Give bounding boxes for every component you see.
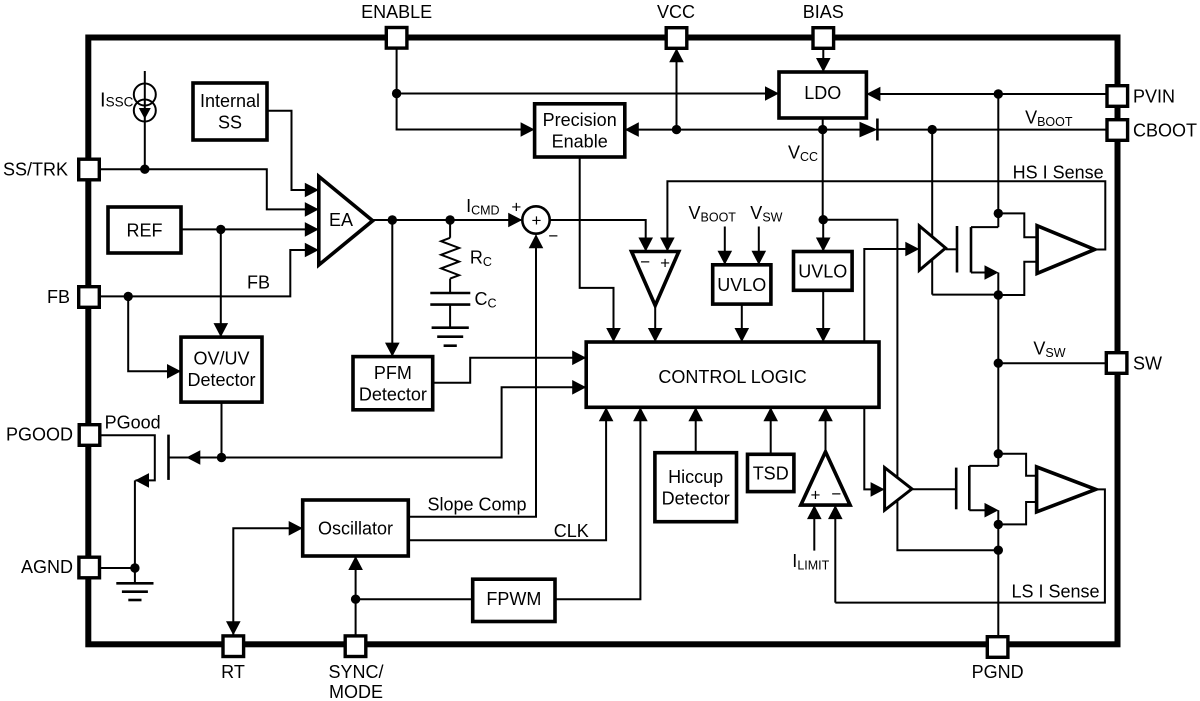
- svg-text:EA: EA: [329, 210, 353, 230]
- svg-text:Detector: Detector: [662, 488, 730, 508]
- svg-text:AGND: AGND: [21, 557, 73, 577]
- svg-text:−: −: [548, 227, 558, 246]
- svg-text:SS: SS: [218, 113, 242, 133]
- svg-text:+: +: [532, 211, 542, 230]
- svg-text:CBOOT: CBOOT: [1133, 121, 1197, 141]
- svg-text:Detector: Detector: [187, 370, 255, 390]
- svg-text:FB: FB: [247, 273, 270, 293]
- svg-text:SW: SW: [1133, 354, 1162, 374]
- svg-text:Internal: Internal: [200, 91, 260, 111]
- svg-text:−: −: [831, 484, 841, 503]
- svg-text:+: +: [511, 197, 521, 216]
- svg-text:Detector: Detector: [359, 384, 427, 404]
- svg-text:TSD: TSD: [753, 463, 789, 483]
- svg-text:PVIN: PVIN: [1133, 87, 1175, 107]
- svg-text:CONTROL LOGIC: CONTROL LOGIC: [658, 367, 806, 387]
- svg-text:REF: REF: [127, 220, 163, 240]
- svg-text:FPWM: FPWM: [486, 589, 541, 609]
- svg-text:UVLO: UVLO: [798, 261, 847, 281]
- svg-text:FB: FB: [47, 287, 70, 307]
- svg-text:+: +: [660, 254, 670, 273]
- svg-text:BIAS: BIAS: [803, 2, 844, 22]
- svg-text:VCC: VCC: [657, 2, 695, 22]
- svg-text:OV/UV: OV/UV: [193, 348, 249, 368]
- svg-text:Hiccup: Hiccup: [668, 467, 723, 487]
- svg-text:LDO: LDO: [804, 83, 841, 103]
- svg-text:Enable: Enable: [552, 132, 608, 152]
- svg-text:CLK: CLK: [554, 521, 589, 541]
- svg-text:UVLO: UVLO: [717, 275, 766, 295]
- svg-text:−: −: [640, 253, 650, 272]
- svg-text:PGOOD: PGOOD: [6, 425, 73, 445]
- svg-text:SS/TRK: SS/TRK: [3, 160, 68, 180]
- svg-text:+: +: [811, 486, 821, 505]
- svg-text:PGood: PGood: [105, 413, 161, 433]
- svg-text:PGND: PGND: [972, 662, 1024, 682]
- svg-text:HS I Sense: HS I Sense: [1013, 163, 1104, 183]
- svg-text:ENABLE: ENABLE: [361, 2, 432, 22]
- svg-text:LS I Sense: LS I Sense: [1012, 582, 1100, 602]
- svg-text:SYNC/: SYNC/: [328, 662, 383, 682]
- svg-text:RT: RT: [221, 662, 245, 682]
- svg-text:Slope Comp: Slope Comp: [428, 495, 527, 515]
- svg-text:MODE: MODE: [329, 682, 383, 701]
- svg-text:Precision: Precision: [543, 110, 617, 130]
- svg-text:PFM: PFM: [374, 363, 412, 383]
- svg-text:Oscillator: Oscillator: [318, 518, 393, 538]
